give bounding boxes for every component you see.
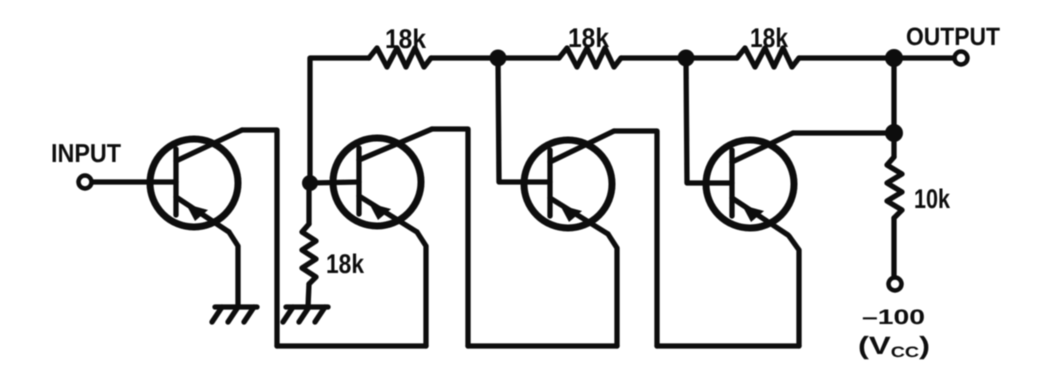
wire: Q2 collector down to bottom rail bbox=[432, 129, 468, 346]
wire: input terminal to Q1 base bbox=[92, 179, 176, 184]
wire: node B down to Q4 base bbox=[686, 58, 732, 183]
junction node Q2 base bbox=[302, 175, 318, 191]
wire: Q4 emitter down to bottom rail bbox=[789, 236, 799, 346]
wire: node C to 10k resistor bbox=[891, 133, 896, 157]
wire: bottom rail segment 1 (Q1 collector to Q2 emitter) bbox=[277, 343, 426, 348]
svg-text:10k: 10k bbox=[914, 184, 951, 214]
svg-text:18k: 18k bbox=[385, 24, 427, 54]
resistor R5 10k bbox=[887, 157, 902, 218]
input terminal bbox=[79, 176, 92, 189]
junction node A bbox=[490, 50, 507, 67]
wire: node A to R2 bbox=[498, 55, 559, 60]
svg-text:18k: 18k bbox=[326, 249, 365, 279]
transistor Q1 bbox=[150, 130, 242, 232]
resistor R3 18k (top rail) bbox=[737, 48, 799, 67]
wire: node A down to Q3 base bbox=[498, 58, 550, 182]
svg-text:18k: 18k bbox=[750, 23, 789, 53]
junction node C (Q4 collector / 10k) bbox=[885, 124, 903, 142]
wire: 10k to Vcc terminal bbox=[891, 218, 896, 277]
ground G2 bbox=[283, 307, 328, 322]
wire: R4 to ground bbox=[308, 284, 309, 307]
wire: Q3 emitter down to bottom rail bbox=[608, 234, 617, 346]
junction node OUT (top) bbox=[885, 49, 903, 67]
wire: Q1 emitter down to ground bbox=[229, 232, 238, 307]
transistor Q2 bbox=[333, 129, 432, 232]
svg-text:OUTPUT: OUTPUT bbox=[906, 23, 1000, 51]
ground G1 bbox=[212, 307, 257, 322]
wire: bottom rail segment 2 (Q2 collector to Q3 emitter) bbox=[468, 343, 617, 348]
transistor Q3 bbox=[524, 131, 614, 234]
transistor Q4 bbox=[706, 133, 794, 235]
wire: bottom rail segment 3 (Q3 collector to Q4 emitter) bbox=[657, 343, 799, 348]
wire: Q3 collector down to bottom rail bbox=[614, 131, 657, 346]
svg-text:INPUT: INPUT bbox=[51, 138, 121, 168]
Vcc terminal bbox=[889, 278, 902, 291]
output terminal bbox=[955, 52, 968, 65]
resistor R1 18k (top rail) bbox=[369, 48, 431, 67]
wire: Q4 collector to node C bbox=[793, 130, 894, 135]
wire: rail R1 to node A bbox=[431, 55, 498, 60]
junction node B bbox=[678, 50, 695, 67]
wire: output node down to collector node bbox=[891, 58, 896, 133]
svg-text:–100: –100 bbox=[862, 306, 925, 329]
wire: node B to R3 bbox=[686, 55, 737, 60]
wire: Q1 collector down to bottom rail bbox=[242, 130, 277, 346]
wire: Q2 emitter down to bottom rail bbox=[417, 232, 426, 346]
wire: Q2 base node down to shunt resistor bbox=[306, 183, 311, 224]
wire: Q2 base node to Q2 base bar bbox=[310, 182, 359, 183]
wire: R2 to node B bbox=[621, 55, 686, 60]
wire: top rail left corner down to Q2 base node bbox=[310, 58, 369, 183]
resistor R2 18k (top rail) bbox=[559, 48, 621, 67]
wire: R3 to output node bbox=[799, 55, 954, 60]
svg-text:18k: 18k bbox=[568, 23, 610, 53]
resistor R4 18k (shunt) bbox=[302, 224, 316, 284]
